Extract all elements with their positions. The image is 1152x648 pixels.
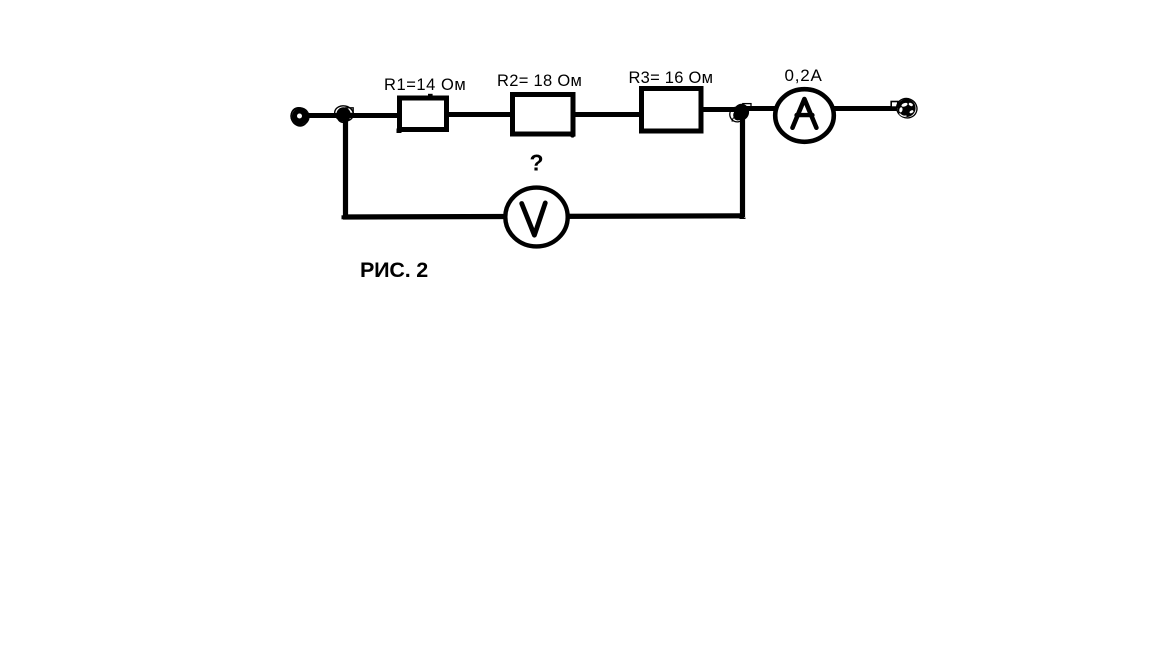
- node junction right (wire scribble joint): [728, 104, 751, 124]
- svg-text:R2= 18 Ом: R2= 18 Ом: [497, 72, 582, 90]
- svg-text:R1=14 Ом: R1=14 Ом: [384, 76, 466, 94]
- resistor R3: [642, 89, 702, 132]
- voltmeter V: [505, 188, 567, 247]
- resistor R2: [513, 95, 574, 135]
- wire between R3 and right node: [702, 107, 740, 112]
- wire from ammeter to right terminal: [832, 106, 897, 111]
- svg-text:РИС. 2: РИС. 2: [360, 258, 428, 282]
- wire left vertical branch down to voltmeter loop: [343, 111, 348, 217]
- resistor R1: [400, 98, 447, 130]
- svg-text:R3= 16 Ом: R3= 16 Ом: [629, 69, 714, 87]
- left terminal scribble: [288, 105, 311, 128]
- ammeter A: [775, 89, 834, 142]
- wire right vertical branch down to voltmeter loop: [740, 113, 745, 217]
- wire between R1 and R2: [447, 112, 512, 117]
- svg-text:?: ?: [530, 150, 544, 176]
- wire between R2 and R3: [574, 112, 641, 117]
- wire bottom voltmeter loop: [343, 216, 744, 217]
- wire left lead from terminal to R1: [306, 113, 399, 118]
- svg-text:0,2A: 0,2A: [785, 66, 823, 85]
- wire from right node to ammeter: [746, 106, 778, 111]
- right terminal scribble: [891, 95, 920, 121]
- node junction left (wire scribble joint): [333, 104, 355, 123]
